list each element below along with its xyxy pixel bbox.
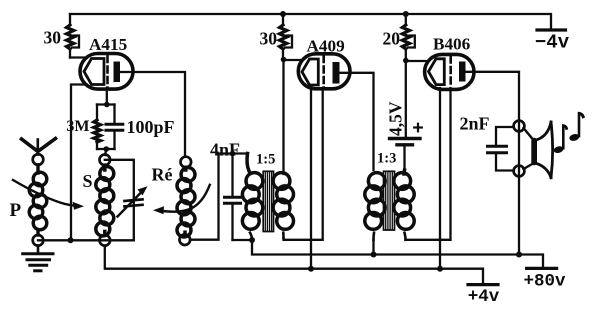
wire tuning cap branch [105,160,134,241]
junction dot grid-leak top [104,102,110,108]
label 3M [66,118,89,135]
wire T1 secondary top to R2 node [282,60,284,175]
tube V2 A409 envelope [298,54,350,89]
wire V1 anode to Re coil [120,72,185,157]
wire R2 node to V2 filament [284,59,302,61]
terminal -4v bar [537,28,566,31]
wire V2 filament lead to +4v rail [310,88,312,269]
svg-text:4,5V: 4,5V [386,101,406,136]
transformer T1 primary coil [242,154,262,241]
junction dot T2 primary on +80v rail [371,252,377,258]
junction dot 4nF top [230,151,236,157]
tube V1 grid (dashed) [106,56,109,88]
junction dot R3 bottom node [403,58,409,64]
label 4,5V (rotated) [386,101,406,136]
svg-text:P: P [10,200,22,221]
label 4nF [210,140,240,160]
variable capacitor C4 plates [125,199,143,206]
label 20 (R3) [383,29,401,49]
label +4v [468,287,500,307]
label A415 [89,35,127,54]
terminal coil P top [33,154,44,165]
junction dot speaker on +80v rail [516,252,522,258]
resistor R2 30 [280,14,293,60]
svg-text:30: 30 [44,28,62,48]
svg-text:3M: 3M [66,118,89,135]
speaker LS1 connectors [524,128,534,169]
tube V3 B406 envelope [425,54,474,89]
terminal coil Re top [181,157,192,168]
wire +4v rail [105,246,483,283]
coil P [29,165,47,235]
svg-text:20: 20 [383,29,401,49]
transformer T2 secondary coil [394,170,414,240]
svg-text:A415: A415 [89,35,127,54]
label P [10,200,22,221]
terminal coil P bottom [33,235,44,246]
capacitor C2 4nF [225,154,253,241]
coil Re (reaction) [177,167,195,237]
label +80v [523,272,566,292]
wire grid-leak to coil S top [105,149,106,155]
transformer T1 core [263,171,273,231]
label S [83,171,93,191]
wire T2 secondary bottom to V3 grid [406,88,451,240]
tube V2 filament [302,59,318,85]
svg-text:100pF: 100pF [127,117,175,137]
svg-text:2nF: 2nF [460,114,490,134]
label 30 (R1) [44,28,62,48]
terminal +80v bar [527,267,557,270]
capacitor C1 100pF [106,105,123,150]
wire grid-leak bottom bar [97,148,115,150]
musical note 1 [553,124,568,154]
tube V2 anode [333,62,340,84]
label 2nF [460,114,490,134]
arrow reaction Re (points left) [153,185,210,215]
junction dot rail R2 [280,11,286,17]
junction dot V2 filament on +4v rail [308,266,314,272]
tube V1 filament [84,59,104,85]
wire top rail -4v [70,14,551,29]
tube V1 anode [114,62,121,83]
junction dot node F1 [68,237,74,243]
label B406 [433,35,471,54]
junction dot T1 primary bottom [249,237,255,243]
label Re [152,165,173,185]
terminal +4v bar [468,283,498,286]
wire R3 node to V3 filament [406,60,427,62]
junction dot grid-leak bottom [104,146,110,152]
tube V1 A415 envelope [80,54,133,90]
terminal speaker top [514,121,525,132]
battery B1 4.5V [390,139,421,175]
junction dot V3 filament on +4v rail [437,266,443,272]
svg-text:S: S [83,171,93,191]
wire V3 filament lead to +4v rail [439,88,441,269]
terminal coil S bottom [100,235,111,246]
terminal coil Re bottom [180,234,191,245]
label 100pF [127,117,175,137]
arrow coupling P (points right) [13,180,84,210]
svg-text:Ré: Ré [152,165,173,185]
wire +80v rail [252,240,543,267]
label A409 [307,37,345,56]
svg-text:30: 30 [260,29,278,49]
svg-text:4nF: 4nF [210,140,240,160]
transformer T1 secondary coil [273,173,293,238]
transformer T2 primary coil [365,173,385,240]
svg-text:B406: B406 [433,35,471,54]
wire V1 filament to ground bus [71,85,84,241]
wire R3 to battery [405,49,407,137]
capacitor C3 2nF [488,127,514,171]
ground [23,246,53,271]
speaker LS1 horn [537,122,553,178]
label 30 (R2) [260,29,278,49]
svg-text:1:5: 1:5 [256,152,275,168]
antenna [22,139,56,155]
wire T1 secondary bottom to V2 grid [284,88,323,240]
label 1:3 [377,151,396,167]
svg-text:+80v: +80v [523,272,566,292]
tube V3 anode [459,62,466,82]
resistor R4 3M grid leak [94,105,101,150]
terminal speaker bottom [514,166,525,177]
coil S [96,165,114,236]
label -4v [535,32,570,54]
tube V3 filament [429,59,445,85]
arrow variable capacitor [118,186,148,216]
junction dot rail R3 [403,11,409,17]
tube V2 grid (dashed) [322,56,325,88]
svg-text:+4v: +4v [468,287,500,307]
wire V3 anode to speaker [466,72,520,255]
wire T2 primary bottom to +80v rail [372,240,374,255]
speaker LS1 driver [531,138,537,166]
wire V2 anode to transformer T2 primary [340,73,374,170]
battery B1 plus sign [414,124,422,132]
svg-text:−4v: −4v [535,32,570,54]
resistor R3 20 [402,14,415,49]
wire bottom bus P to S to tuning cap [38,239,134,241]
tube V3 grid (dashed) [449,57,452,89]
wire V1 grid lead [106,88,108,105]
label 1:5 [256,152,275,168]
musical note 2 [569,112,585,142]
wire grid-leak top bar [97,103,115,105]
junction dot R2 bottom node [281,57,287,63]
svg-text:1:3: 1:3 [377,151,396,167]
terminal coil S top [100,155,111,166]
resistor R1 30 [67,14,80,58]
wire Re bottom to transformer T1 primary top [190,154,247,240]
wire R1 to V1 filament top [70,56,84,58]
transformer T2 core [384,171,395,230]
